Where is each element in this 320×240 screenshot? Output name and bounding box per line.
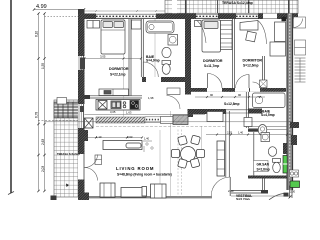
svg-text:3,05: 3,05 — [110, 110, 116, 114]
svg-text:S=11,7mp: S=11,7mp — [204, 64, 219, 68]
svg-text:6,78: 6,78 — [35, 112, 39, 118]
svg-text:1,63: 1,63 — [126, 111, 132, 115]
svg-text:2,63: 2,63 — [41, 139, 45, 145]
svg-text:DORMITOR: DORMITOR — [109, 67, 129, 71]
svg-text:2,63: 2,63 — [127, 135, 133, 139]
svg-text:S=4,5mp: S=4,5mp — [261, 113, 275, 117]
svg-text:3,05: 3,05 — [100, 55, 106, 59]
svg-text:S=3,2mp: S=3,2mp — [236, 198, 250, 201]
svg-text:S=12,6mp: S=12,6mp — [243, 64, 259, 68]
svg-text:GR.SAN: GR.SAN — [257, 163, 270, 167]
svg-text:8,10: 8,10 — [35, 31, 39, 37]
svg-text:LIVING ROOM: LIVING ROOM — [116, 166, 154, 171]
svg-text:DORMITOR: DORMITOR — [203, 59, 223, 63]
svg-text:S=2,8mp: S=2,8mp — [257, 168, 270, 172]
svg-text:S=4,9mp: S=4,9mp — [146, 59, 160, 63]
svg-text:4.99: 4.99 — [36, 4, 47, 10]
svg-text:S=48,8mp (living room + bucata: S=48,8mp (living room + bucatarie) — [117, 172, 172, 176]
svg-text:1,10: 1,10 — [96, 135, 102, 139]
svg-text:1,55: 1,55 — [41, 63, 45, 69]
svg-text:S=12,8mp: S=12,8mp — [224, 102, 240, 106]
svg-text:TERASA S=12,4mp: TERASA S=12,4mp — [222, 1, 253, 5]
svg-text:90: 90 — [238, 93, 242, 97]
svg-text:S=22,1mp: S=22,1mp — [110, 73, 126, 77]
svg-text:1,98: 1,98 — [148, 96, 154, 100]
svg-text:2,03: 2,03 — [41, 166, 45, 172]
svg-text:DORMITOR: DORMITOR — [243, 59, 263, 63]
svg-text:90: 90 — [210, 93, 214, 97]
svg-text:2,10: 2,10 — [228, 189, 234, 193]
